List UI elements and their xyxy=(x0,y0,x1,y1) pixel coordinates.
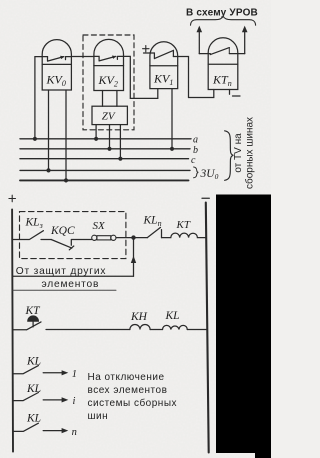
arrow from other protections into junction xyxy=(133,238,135,277)
bus b xyxy=(20,148,190,150)
KTп contact blade xyxy=(210,48,229,55)
black redaction rectangle xyxy=(216,195,271,454)
plus at KV1 contact xyxy=(143,46,149,52)
bus 3U0 upper xyxy=(20,169,190,171)
KV2 contact blade xyxy=(94,56,124,61)
relay KV2 body xyxy=(94,39,124,90)
KV1 contact blade xyxy=(150,50,174,58)
svg-text:сборных шинах: сборных шинах xyxy=(244,117,256,189)
right rail xyxy=(206,203,209,453)
minus terminal (bottom circuit) xyxy=(202,197,209,199)
svg-text:KT: KT xyxy=(25,305,42,317)
relay KV1 body xyxy=(150,42,178,89)
KV0 right coil leg to u2 xyxy=(65,90,67,180)
wire: KV0 contact to bus a xyxy=(35,57,42,139)
svg-text:KL: KL xyxy=(26,383,41,395)
coil KH xyxy=(130,324,150,329)
contact KLп xyxy=(147,227,161,237)
wire: KV0 contact to KV2 contact xyxy=(71,56,94,58)
svg-text:элементов: элементов xyxy=(42,279,100,290)
wire: KTп contact left to arrow xyxy=(199,53,210,55)
left rail xyxy=(11,209,14,451)
wire KT contact to KH xyxy=(46,329,130,331)
arrow to i xyxy=(43,399,64,401)
contact KL 1 xyxy=(13,366,39,374)
ZV box xyxy=(92,106,127,124)
KV2 coil legs into ZV xyxy=(102,91,104,107)
svg-text:KL: KL xyxy=(165,310,180,322)
svg-text:ZV: ZV xyxy=(102,110,116,122)
wire KH to KL xyxy=(150,329,162,331)
link SX xyxy=(92,235,97,240)
svg-text:a: a xyxy=(193,135,198,146)
svg-text:KT: KT xyxy=(176,219,191,231)
svg-text:c: c xyxy=(191,155,196,166)
contact KL 3 xyxy=(13,423,39,431)
wire: KTп contact right to arrow xyxy=(229,53,244,55)
minus at KTп leg xyxy=(233,95,241,97)
ZV leg to bus c xyxy=(119,125,121,159)
relay KV0 body xyxy=(42,40,71,90)
svg-text:i: i xyxy=(73,396,76,407)
small brace 3U0 xyxy=(194,167,199,178)
svg-text:всех элементов: всех элементов xyxy=(88,385,168,396)
wire KL coil to right rail xyxy=(187,329,207,331)
big brace от TV xyxy=(225,131,234,181)
brace over УРОВ arrows xyxy=(191,16,256,25)
svg-text:KQC: KQC xyxy=(50,225,75,237)
KTп right leg stub xyxy=(229,90,231,95)
svg-text:От защит других: От защит других xyxy=(16,266,106,277)
bus 3U0 lower xyxy=(20,179,189,181)
coil KT xyxy=(162,233,207,237)
KV1 left coil leg xyxy=(157,89,159,99)
KV1 right coil leg to bus b xyxy=(171,89,173,149)
wire SX to junction xyxy=(116,237,147,239)
bus a xyxy=(20,138,191,140)
dashed box (protection output block) xyxy=(20,212,126,259)
svg-text:n: n xyxy=(72,427,77,438)
bus c xyxy=(20,158,189,160)
KV0 left coil leg to u1 xyxy=(48,90,50,170)
svg-text:SX: SX xyxy=(93,220,107,232)
contact KL3 xyxy=(13,231,52,240)
coil KL xyxy=(163,325,188,329)
wire: KV1 contact out to KTп coil xyxy=(173,57,188,98)
svg-text:KH: KH xyxy=(130,311,148,323)
junction node xyxy=(131,235,135,239)
wire: plus stub into KV1 xyxy=(144,52,150,54)
contact KT time-delay xyxy=(13,321,41,330)
dashed box KV2/ZV xyxy=(83,35,134,130)
ZV leg to bus a xyxy=(95,125,97,139)
svg-text:В схему УРОВ: В схему УРОВ xyxy=(186,7,258,18)
wire: KV2 contact out down to KV1 coil xyxy=(124,56,158,98)
svg-text:шин: шин xyxy=(88,411,109,422)
svg-text:системы сборных: системы сборных xyxy=(88,397,178,409)
contact KL 2 xyxy=(13,393,39,401)
plus terminal (bottom circuit) xyxy=(9,195,16,202)
KTп left leg xyxy=(189,90,214,98)
svg-text:1: 1 xyxy=(72,369,77,380)
wire from rail to arrow xyxy=(12,275,133,277)
underline under элементов xyxy=(13,289,116,291)
svg-text:KL: KL xyxy=(26,413,41,425)
relay KTп body xyxy=(208,38,238,90)
arrow to n xyxy=(43,430,64,432)
arrow to 1 xyxy=(43,372,64,374)
svg-text:На отключение: На отключение xyxy=(88,372,165,383)
contact KQC xyxy=(51,240,91,250)
KV0 contact blade xyxy=(42,57,71,62)
ZV leg to bus b xyxy=(109,125,111,149)
arrow up to УРОВ (right) xyxy=(244,31,246,54)
svg-text:от TV на: от TV на xyxy=(233,133,244,173)
arrow up to УРОВ (left) xyxy=(198,31,200,54)
